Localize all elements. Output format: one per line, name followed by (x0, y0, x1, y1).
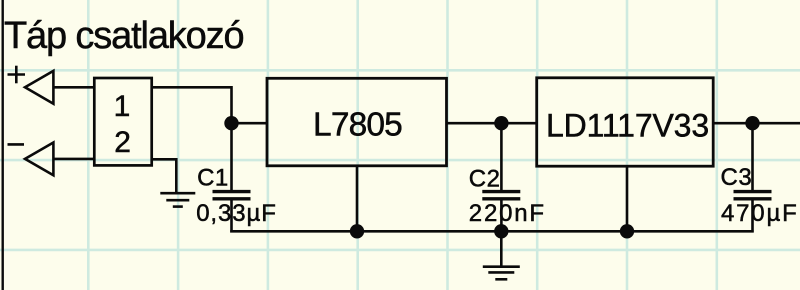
value 470µF (721, 200, 799, 227)
minus terminal marker (8, 143, 25, 146)
input arrow − (25, 143, 53, 176)
input arrow + (25, 71, 53, 104)
junction node B (494, 116, 508, 130)
capacitor C1 (213, 123, 251, 232)
wire + arrow to pin 1 (53, 86, 94, 89)
title Táp csatlakozó (4, 15, 243, 57)
wire rail to middle ground (500, 231, 503, 267)
svg-text:0,33µF: 0,33µF (196, 200, 277, 227)
plus terminal marker (8, 66, 26, 84)
pin number 1 (114, 90, 131, 123)
junction node A (224, 116, 238, 130)
svg-text:C2: C2 (469, 165, 501, 192)
wire U2 output to right edge through node C (713, 122, 800, 125)
connector J1 (94, 78, 151, 165)
regulator U2 LD1117V33 (537, 78, 714, 166)
wire U1 ground pin to rail (356, 166, 359, 232)
wire − arrow to pin 2 (53, 158, 94, 161)
wire U1 output to U2 input through node B (447, 122, 537, 125)
svg-text:C1: C1 (197, 164, 229, 191)
svg-text:2: 2 (114, 126, 131, 159)
label L7805 (313, 106, 402, 143)
svg-text:220nF: 220nF (469, 200, 546, 227)
capacitor C3 (734, 123, 772, 232)
ground symbol at rail (483, 267, 520, 280)
svg-text:Táp csatlakozó: Táp csatlakozó (4, 15, 243, 57)
ground symbol at connector (160, 193, 195, 206)
capacitor C2 (482, 123, 520, 232)
svg-text:L7805: L7805 (313, 106, 402, 143)
label LD1117V33 (546, 107, 709, 143)
wire pin 2 to connector ground (152, 159, 177, 193)
junction U1 gnd on rail (350, 224, 364, 238)
ground rail wire (230, 230, 753, 233)
label C3 (721, 164, 753, 191)
svg-text:1: 1 (114, 90, 131, 123)
value 220nF (469, 200, 546, 227)
regulator U1 L7805 (267, 78, 447, 166)
svg-text:470µF: 470µF (721, 200, 799, 227)
junction C2/ground on rail (494, 224, 508, 238)
label C2 (469, 165, 501, 192)
wire pin 1 to node A (152, 87, 232, 123)
svg-text:LD1117V33: LD1117V33 (546, 107, 709, 143)
label C1 (197, 164, 229, 191)
wire node A to U1 input (232, 122, 268, 125)
value 0,33µF (196, 200, 277, 227)
svg-text:C3: C3 (721, 164, 753, 191)
junction U2 gnd on rail (620, 224, 634, 238)
pin number 2 (114, 126, 131, 159)
wire U2 ground pin to rail (626, 166, 629, 231)
junction node C (745, 116, 759, 130)
